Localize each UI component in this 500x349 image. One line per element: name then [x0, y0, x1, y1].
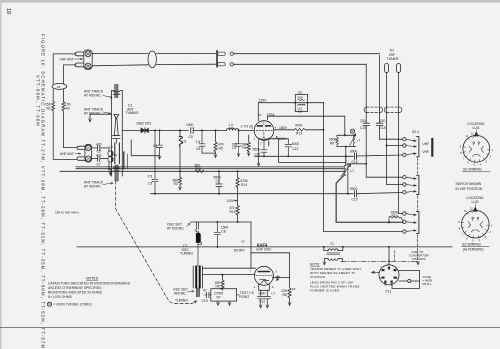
capacitor C6 470 series: [92, 145, 104, 150]
svg-text:0.5: 0.5: [148, 175, 153, 179]
capacitor C13 5000: [285, 139, 291, 157]
svg-text:C7: C7: [97, 162, 101, 166]
svg-text:TUNING: TUNING: [175, 298, 188, 302]
iron core symbol: [350, 129, 354, 133]
IF bus y156.3: [255, 155, 354, 157]
iron core note: [47, 302, 51, 306]
twin lead resumes upper: [234, 53, 380, 55]
V2 cathode: [260, 279, 269, 280]
mixer diode CR1: [122, 129, 152, 131]
svg-text:R1: R1: [47, 107, 51, 111]
resistor R12 470: [236, 205, 239, 222]
C1 inner plunger: [114, 115, 119, 119]
resistor R2: [62, 102, 65, 111]
ground arrows below grid box: [217, 301, 220, 305]
svg-text:5600: 5600: [253, 148, 261, 152]
svg-text:(ALTERNATE): (ALTERNATE): [463, 247, 483, 251]
arrow to J2: [75, 153, 81, 154]
wire L8 to R2: [62, 89, 64, 101]
svg-text:S2 WIRING: S2 WIRING: [462, 242, 481, 246]
C1 bottom trimmer: [115, 165, 118, 181]
grid leak box R7: [211, 289, 237, 301]
coil L1 loop: [104, 148, 109, 151]
cap C7b 5600 below bus: [218, 170, 220, 172]
svg-text:S2-1: S2-1: [412, 130, 419, 134]
long wire x323.5 down to S2-3: [324, 103, 403, 232]
choke box R16 L10: [295, 94, 307, 111]
svg-text:TUNING: TUNING: [180, 252, 193, 256]
svg-text:POINT: POINT: [239, 295, 249, 299]
B+ wire down to osc box: [250, 222, 252, 253]
linkage dash S2-1 to S2-2: [417, 158, 419, 175]
svg-text:R18: R18: [195, 167, 201, 171]
svg-text:810: 810: [298, 109, 303, 113]
svg-text:L8: L8: [57, 85, 61, 89]
cap C4 shunt: [157, 130, 163, 155]
V2 pin legs: [259, 284, 270, 291]
wire bus to plug PL1: [388, 247, 390, 265]
V1 heater: [262, 137, 265, 140]
svg-text:RF B+: RF B+: [423, 282, 432, 286]
junction dot post left: [386, 145, 388, 147]
resistor R6 68K shunt: [247, 135, 250, 152]
svg-text:R8: R8: [283, 293, 287, 297]
connector J2 UHF ANT terminal board: [85, 144, 92, 162]
wire x366 to switch contact S2-2: [366, 153, 402, 177]
svg-text:S2 WIRING: S2 WIRING: [463, 168, 482, 172]
arrow to connector: [75, 58, 83, 60]
V1 grid dashes: [256, 129, 272, 131]
heater bus pair: [76, 167, 344, 169]
svg-text:R14: R14: [241, 183, 247, 187]
capacitor C5 1000 series: [191, 128, 193, 134]
V1 plate bars: [258, 125, 271, 127]
svg-text:TUNING: TUNING: [126, 111, 139, 115]
svg-text:110V: 110V: [227, 199, 235, 203]
third bus line: [60, 170, 344, 172]
tank circuit L6 R9 parallel loop: [337, 135, 355, 146]
bead stadium B: [387, 107, 399, 112]
svg-text:CAPACITORS INDICATED IN MIC: CAPACITORS INDICATED IN MICROMICROFARADS: [48, 282, 130, 286]
svg-text:C19: C19: [352, 197, 358, 201]
S2-2 wiper bar: [417, 175, 419, 194]
C2 bottom trimmer: [196, 288, 199, 297]
svg-text:1.5: 1.5: [249, 291, 254, 295]
plug break body bar: [216, 51, 218, 67]
cap C11 5600 under cathode: [261, 141, 267, 157]
T1 leads: [324, 247, 343, 251]
svg-text:C12: C12: [259, 300, 265, 304]
wire C5 to grid: [193, 129, 226, 131]
left edge strip: [0, 0, 2, 349]
junction node A: [154, 129, 156, 131]
svg-text:UNLESS OTHERWISE SPECIFIED: UNLESS OTHERWISE SPECIFIED: [48, 286, 102, 290]
svg-text:C5: C5: [189, 135, 193, 139]
terminal post VHF tuner right: [397, 64, 401, 73]
svg-text:V2: V2: [241, 239, 245, 243]
svg-text:R2: R2: [66, 107, 70, 111]
svg-text:9000: 9000: [350, 149, 358, 153]
coil L8 oval enclosure: [52, 83, 67, 89]
tube V1 2354 envelope: [254, 121, 274, 141]
svg-text:220: 220: [380, 119, 386, 123]
C1 tuning assembly outer tube: [112, 91, 123, 177]
C1 inner lower plates: [115, 143, 120, 164]
svg-text:900 MC: 900 MC: [174, 291, 186, 295]
svg-text:NOTE:: NOTE:: [310, 262, 320, 266]
svg-text:220: 220: [360, 119, 366, 123]
wire from left post down: [386, 73, 388, 185]
svg-text:TUNER: TUNER: [387, 57, 399, 61]
svg-text:R9: R9: [330, 141, 334, 145]
svg-text:1.5: 1.5: [196, 140, 201, 144]
wire from right post down: [398, 73, 400, 214]
caps below V2: [258, 290, 264, 304]
tank bottom to IF junction: [345, 147, 347, 157]
svg-text:L7: L7: [357, 139, 361, 143]
osc tuning capacitor C2 plates: [193, 266, 202, 288]
T1 ground arrow: [323, 262, 326, 266]
V1 grid support: [263, 122, 265, 136]
shield box around cathode network: [279, 139, 346, 162]
plug PL1: [379, 265, 399, 285]
wire from assembly to C4 line: [131, 140, 159, 156]
resistor R13 470K series: [295, 128, 306, 131]
junction dot: [215, 129, 217, 131]
svg-text:LUG: LUG: [472, 200, 479, 204]
svg-text:C6: C6: [196, 147, 200, 151]
svg-text:R12: R12: [230, 210, 236, 214]
svg-text:VHF ANT: VHF ANT: [60, 58, 74, 62]
svg-text:L7: L7: [272, 291, 276, 295]
svg-text:R5: R5: [219, 146, 223, 150]
wire L4 to grid pin: [239, 129, 255, 131]
ground arrows below V2 caps: [259, 305, 262, 309]
wire from top lug to left rail: [53, 54, 76, 84]
svg-text:R13: R13: [296, 132, 302, 136]
S2-1 contact 3: [403, 153, 406, 156]
S2-2 contact 1: [403, 176, 406, 179]
B+ line through choke box: [258, 102, 323, 104]
grid ground arrow: [276, 276, 280, 281]
capacitor C18 220 on line x379.5: [376, 123, 382, 125]
svg-text:= IRON TUNING CORES.: = IRON TUNING CORES.: [54, 303, 93, 307]
capacitor C15 9000 series in IF bus: [355, 153, 357, 159]
svg-text:R6: R6: [216, 285, 220, 289]
svg-text:848: 848: [229, 126, 235, 130]
wire x155 down with cap C14: [152, 130, 158, 193]
osc plate tank loop: [251, 253, 290, 278]
svg-text:AT 520 MC: AT 520 MC: [167, 227, 184, 231]
cap C10 47 on box left: [205, 292, 211, 297]
wire R1 down to UHF lug: [53, 111, 68, 159]
svg-text:PL1: PL1: [386, 290, 392, 294]
dot plate tank to envelope: [272, 277, 274, 279]
wire x398 to switch contact S2-3: [399, 213, 403, 215]
socket 2 pins: [458, 206, 493, 242]
connector J1 VHF ANT terminal board: [84, 50, 92, 69]
svg-text:180V: 180V: [279, 126, 288, 130]
svg-text:C13: C13: [292, 147, 298, 151]
resistor R5 47K shunt: [214, 130, 217, 153]
line cap C2 to tank: [202, 267, 255, 269]
bead stadium A: [367, 107, 380, 112]
svg-text:CHASSIS: CHASSIS: [412, 257, 426, 261]
VHF ANT spade lug bottom: [75, 63, 84, 67]
S2-1 contact 2: [403, 144, 406, 147]
S2-3 wiper bar: [417, 212, 419, 234]
svg-text:1N82 CR1: 1N82 CR1: [136, 122, 152, 126]
svg-text:K=1,000 OHMS: K=1,000 OHMS: [48, 295, 72, 299]
svg-text:CHASSIS: CHASSIS: [310, 275, 325, 279]
UHF ANT spade lug top: [69, 146, 85, 149]
svg-text:VHF: VHF: [423, 150, 429, 154]
V2 heater: [260, 280, 268, 285]
plug to interlock lines: [392, 271, 420, 289]
svg-text:5000: 5000: [292, 142, 300, 146]
svg-text:AT 600 MC: AT 600 MC: [84, 112, 101, 116]
socket 1 pins: [460, 131, 494, 166]
wire R2 down to UHF lug: [63, 111, 68, 148]
capacitor C9 150 shunt: [236, 130, 242, 146]
svg-text:120V: 120V: [259, 98, 268, 102]
plate pin wire to y116 line: [268, 116, 345, 135]
V2 plate bar: [259, 271, 270, 273]
svg-text:AT 900 MC: AT 900 MC: [84, 185, 101, 189]
svg-text:C7: C7: [216, 179, 220, 183]
bottom page border line: [0, 327, 500, 329]
svg-text:9000: 9000: [350, 187, 358, 191]
S2-3 contact 3: [403, 230, 406, 233]
linkage dash S2-2 to S2-3: [417, 196, 419, 211]
svg-text:T1: T1: [330, 242, 334, 246]
tube V2 6AF4 envelope: [254, 266, 273, 285]
svg-text:470: 470: [96, 143, 102, 147]
svg-text:RESISTORS INDICATED IN OHMS: RESISTORS INDICATED IN OHMS: [48, 290, 102, 294]
junction dot: [201, 129, 203, 131]
svg-text:LUG: LUG: [473, 126, 480, 130]
S2-3 contact 1: [403, 212, 406, 215]
terminal post VHF tuner left: [385, 64, 389, 73]
svg-text:C9: C9: [232, 146, 236, 150]
wire C6b bottom join: [202, 152, 216, 153]
B plus bus y246.9: [77, 246, 452, 248]
V2 grid dashes: [256, 275, 272, 277]
ground arrow below C9: [237, 146, 240, 156]
wire tuner post left to S2-1 and S2-2: [387, 146, 403, 185]
V1 cathode: [258, 138, 269, 139]
ground arrow below R5: [214, 153, 217, 158]
TEST POINT: [237, 294, 240, 296]
coil L4 series: [227, 129, 239, 131]
wire L8 to R1: [52, 89, 54, 101]
svg-text:18: 18: [5, 8, 11, 14]
resistor R8 22K: [288, 278, 291, 303]
dashed stub: [394, 251, 396, 262]
shield plate bar: [431, 138, 433, 157]
twin lead lower line: [92, 64, 215, 66]
S2-2 contact 2: [403, 183, 406, 186]
svg-text:470: 470: [96, 153, 102, 157]
svg-text:UHF OSC: UHF OSC: [256, 248, 272, 252]
L6 adjust arrow: [350, 134, 356, 146]
ground stub left of assembly: [90, 114, 112, 118]
resistor R10 180K: [389, 216, 403, 222]
grid line to 6AF4: [202, 274, 254, 276]
wire L7 tap to x366: [347, 163, 366, 165]
thick shield line from L7: [336, 175, 403, 223]
twin lead resumes lower: [234, 63, 367, 65]
svg-text:C3: C3: [148, 182, 152, 186]
capacitor C7 470 series: [92, 156, 104, 161]
svg-text:C15: C15: [360, 126, 366, 130]
plug prong bottom: [218, 63, 226, 66]
svg-text:AT 450 MC: AT 450 MC: [84, 94, 101, 98]
VHF ANT spade lug top: [75, 52, 84, 56]
wire from bottom lug to left rail: [63, 65, 76, 84]
svg-text:L8: L8: [292, 287, 296, 291]
UHF ANT spade lug bottom: [69, 157, 85, 160]
svg-text:65-90V: 65-90V: [234, 249, 246, 253]
ground arrow below R6: [247, 152, 250, 156]
svg-text:1000: 1000: [186, 123, 194, 127]
svg-text:VTT-58M, TT-60M: VTT-58M, TT-60M: [36, 75, 41, 127]
svg-text:R3: R3: [174, 182, 178, 186]
svg-text:L7: L7: [351, 169, 355, 173]
wire upper lead turns down to switch: [380, 56, 403, 140]
svg-text:R10: R10: [392, 214, 398, 218]
svg-text:NOTES: NOTES: [86, 276, 99, 280]
svg-text:UHF ANT: UHF ANT: [60, 152, 74, 156]
svg-text:120: 120: [297, 91, 302, 95]
svg-text:120V: 120V: [279, 137, 288, 141]
twin lead upper line: [92, 53, 215, 55]
wire lower lead turns down: [365, 64, 367, 121]
svg-text:UHF: UHF: [423, 142, 430, 146]
plug left arrow: [372, 271, 380, 273]
linkage dash below S2-3: [417, 235, 419, 261]
resistor R14 8700: [237, 170, 239, 172]
junction dots on tank: [344, 134, 346, 136]
S2-1 wiper bar: [417, 137, 419, 157]
svg-text:IN VHF POSITION: IN VHF POSITION: [456, 187, 483, 191]
wire L7 right down to C19 line: [347, 165, 349, 194]
resistor R3 68K: [179, 170, 181, 172]
svg-text:1000: 1000: [258, 292, 266, 296]
resistor R18 56K series in bus: [195, 170, 204, 173]
svg-text:R16: R16: [298, 96, 304, 100]
top grey band: [0, 0, 500, 3]
junction dot plate line: [323, 129, 325, 131]
gang dashed line from C1: [116, 181, 192, 304]
svg-text:47: 47: [203, 289, 207, 293]
plate line right of V1: [274, 129, 324, 131]
line y193.7 with cap C19: [151, 193, 403, 194]
svg-text:C18: C18: [379, 126, 385, 130]
S2-1 contact 1: [403, 138, 406, 141]
wire plate up: [257, 103, 259, 121]
resistor R1: [52, 102, 55, 111]
svg-text:CM4 4C 4067-2484-2: CM4 4C 4067-2484-2: [55, 211, 80, 214]
capacitor C6b 1.5 shunt: [199, 130, 205, 151]
svg-text:C11: C11: [255, 152, 261, 156]
C1 top trimmer screw: [115, 85, 118, 98]
capacitor C16 220 on line x366: [363, 123, 369, 125]
S2-3 contact 2: [403, 220, 406, 223]
resistor R6b 18K grid leak: [222, 274, 224, 276]
coil L2 loop: [104, 158, 108, 160]
coupling bar: [123, 152, 125, 169]
svg-text:FORMER IS USED: FORMER IS USED: [310, 289, 340, 293]
mixer coil L7: [345, 155, 347, 157]
node line y222: [191, 221, 252, 223]
ground arrow: [89, 118, 92, 122]
svg-text:R7: R7: [217, 296, 221, 300]
svg-text:C15: C15: [352, 160, 358, 164]
loop ground: [108, 156, 110, 169]
svg-text:C8: C8: [221, 230, 225, 234]
ground arrow below R8: [288, 302, 291, 306]
svg-text:C19: C19: [202, 299, 208, 303]
svg-text:L5: L5: [183, 139, 187, 143]
svg-text:470K: 470K: [295, 124, 303, 128]
bead oval on twin lead: [148, 51, 156, 68]
svg-text:SWITCH SHOWN: SWITCH SHOWN: [456, 182, 482, 186]
cathode line to C13: [269, 138, 289, 140]
chassis dash-dot link: [341, 260, 413, 262]
plug prong top: [218, 52, 226, 55]
osc coil L3: [196, 222, 198, 229]
capacitor C19 9000 series: [355, 191, 357, 197]
jack contacts: [230, 52, 233, 55]
coil L5 shunt: [179, 129, 181, 131]
S2-2 contact 3: [403, 191, 406, 194]
capacitor C8 1500: [216, 221, 218, 223]
svg-text:R6: R6: [243, 146, 247, 150]
